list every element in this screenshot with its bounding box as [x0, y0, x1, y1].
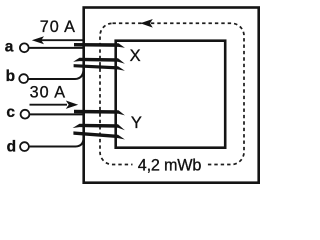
- winding Y turn 1: [74, 110, 125, 116]
- svg-text:a: a: [5, 39, 14, 56]
- winding X turn 2: [73, 58, 125, 64]
- flux path (dashed loop): [100, 23, 244, 164]
- wire from c to winding Y: [30, 113, 85, 115]
- flux direction arrowhead: [140, 19, 153, 28]
- winding X turn 3: [74, 64, 125, 71]
- svg-text:X: X: [130, 47, 141, 65]
- terminal circle d: [20, 142, 29, 151]
- svg-text:4,2 mWb: 4,2 mWb: [138, 157, 202, 175]
- 70 A arrow (pointing left): [40, 39, 83, 41]
- winding X turn 1: [74, 43, 125, 48]
- svg-text:b: b: [6, 68, 15, 85]
- magnetic core outer boundary: [84, 8, 259, 183]
- svg-text:c: c: [6, 104, 15, 121]
- white gap in flux path for flux label: [133, 155, 206, 176]
- winding Y turn 3: [73, 131, 125, 139]
- 30 A arrow (pointing right): [30, 104, 68, 106]
- svg-text:Y: Y: [131, 114, 142, 132]
- winding Y turn 2: [73, 124, 125, 131]
- wire from a to winding X: [29, 47, 84, 49]
- terminal circle c: [21, 110, 30, 119]
- wire from d curving up to winding Y: [29, 138, 84, 147]
- terminal circle a: [20, 43, 29, 52]
- svg-text:30 A: 30 A: [30, 84, 66, 102]
- wire from b curving up to winding X: [28, 68, 83, 79]
- core window (inner opening): [116, 41, 226, 148]
- terminal circle b: [19, 74, 28, 83]
- svg-text:d: d: [7, 139, 16, 156]
- svg-text:70 A: 70 A: [40, 18, 76, 36]
